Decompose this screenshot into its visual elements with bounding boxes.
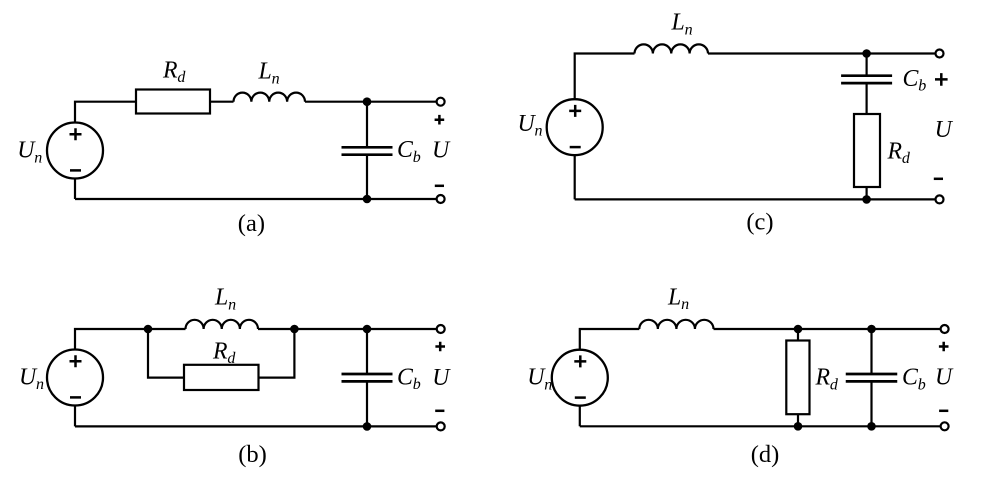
svg-text:L: L xyxy=(214,285,228,311)
svg-text:n: n xyxy=(228,296,236,313)
svg-text:n: n xyxy=(36,376,44,393)
svg-text:U: U xyxy=(935,117,954,143)
svg-text:(c): (c) xyxy=(746,209,773,236)
svg-text:C: C xyxy=(903,66,920,92)
svg-text:C: C xyxy=(902,365,919,391)
svg-text:(b): (b) xyxy=(238,441,267,468)
svg-text:n: n xyxy=(535,123,543,140)
svg-text:b: b xyxy=(918,376,926,393)
svg-text:n: n xyxy=(681,296,689,313)
svg-text:(d): (d) xyxy=(751,441,780,468)
svg-text:L: L xyxy=(667,284,681,310)
svg-text:L: L xyxy=(258,59,272,85)
svg-text:R: R xyxy=(887,138,903,164)
svg-text:n: n xyxy=(34,149,42,166)
svg-text:R: R xyxy=(212,338,228,364)
svg-text:U: U xyxy=(432,365,451,391)
svg-text:d: d xyxy=(830,376,839,393)
svg-text:d: d xyxy=(902,150,911,167)
svg-text:(a): (a) xyxy=(238,210,265,237)
svg-text:R: R xyxy=(162,57,178,83)
svg-text:C: C xyxy=(397,137,414,163)
svg-text:R: R xyxy=(815,365,831,391)
svg-text:U: U xyxy=(432,138,451,164)
svg-text:b: b xyxy=(413,376,421,393)
svg-text:d: d xyxy=(177,69,186,86)
svg-text:L: L xyxy=(671,10,685,36)
svg-text:C: C xyxy=(397,364,414,390)
svg-text:n: n xyxy=(685,22,693,39)
svg-text:n: n xyxy=(272,70,280,87)
svg-text:d: d xyxy=(227,350,236,367)
svg-text:b: b xyxy=(918,78,926,95)
svg-text:U: U xyxy=(935,365,954,391)
svg-text:b: b xyxy=(413,149,421,166)
